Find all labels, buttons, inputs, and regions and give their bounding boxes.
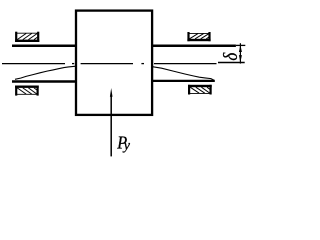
- svg-text:δ: δ: [220, 52, 243, 60]
- svg-text:y: y: [122, 138, 131, 153]
